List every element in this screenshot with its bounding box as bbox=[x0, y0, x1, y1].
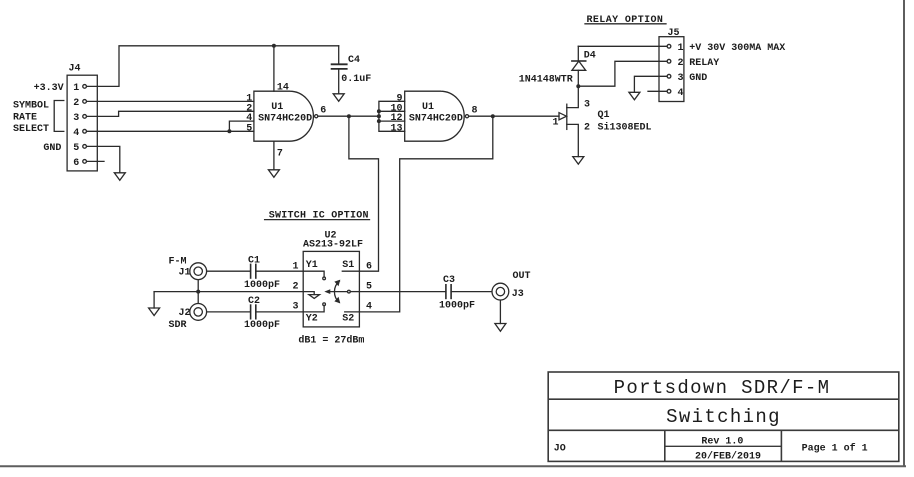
wire U1 pin14 drop bbox=[273, 46, 275, 91]
connector J5 bbox=[659, 37, 684, 102]
svg-text:Y1: Y1 bbox=[306, 260, 318, 271]
svg-text:SELECT: SELECT bbox=[13, 124, 49, 135]
wire J1 to C1 bbox=[207, 270, 250, 272]
svg-text:2: 2 bbox=[73, 98, 79, 109]
ground below J3 bbox=[495, 324, 506, 332]
U2 pin5 wire to box edge bbox=[351, 291, 360, 293]
junction at D4 anode / Q1 drain bbox=[576, 84, 580, 88]
svg-text:C3: C3 bbox=[443, 275, 455, 286]
svg-text:8: 8 bbox=[472, 105, 478, 116]
svg-text:C1: C1 bbox=[248, 256, 260, 267]
svg-text:SN74HC20D: SN74HC20D bbox=[409, 114, 463, 125]
svg-text:U1: U1 bbox=[271, 102, 283, 113]
title block frame bbox=[548, 372, 899, 461]
svg-text:3: 3 bbox=[678, 73, 684, 84]
svg-text:4: 4 bbox=[73, 128, 79, 139]
wire C2 to U2 pin3 bbox=[256, 311, 303, 313]
wire shield J1 to J2 bbox=[197, 280, 199, 303]
svg-text:SN74HC20D: SN74HC20D bbox=[258, 114, 312, 125]
wire J4 pin2 to U1 pin1 bbox=[87, 100, 254, 102]
U1a pin 7 wire to ground bbox=[273, 141, 275, 170]
wire J4 pin4 to U1 pin5 bbox=[87, 130, 254, 132]
svg-text:7: 7 bbox=[277, 149, 283, 160]
wire +3.3V rail from J4 pin1 to top bbox=[87, 46, 339, 87]
svg-text:SYMBOL: SYMBOL bbox=[13, 101, 49, 112]
svg-text:J4: J4 bbox=[69, 64, 81, 75]
svg-text:S2: S2 bbox=[342, 314, 354, 325]
svg-text:4: 4 bbox=[366, 301, 372, 312]
U2 outside pin numbers bbox=[293, 261, 373, 312]
svg-text:Page 1 of 1: Page 1 of 1 bbox=[802, 443, 868, 455]
wire U1b output to U2 S2 bbox=[359, 116, 492, 312]
wire U2 pin5 to C3 bbox=[359, 291, 446, 293]
wire J5 pin3 to ground bbox=[634, 76, 666, 92]
svg-text:2: 2 bbox=[584, 123, 590, 134]
wire junction to J5 pin2 RELAY bbox=[578, 61, 666, 86]
svg-text:OUT: OUT bbox=[513, 271, 531, 282]
transistor Q1 Si1308EDL bbox=[559, 86, 578, 156]
U2 internal common with small triangle bbox=[303, 292, 314, 295]
svg-text:F-M: F-M bbox=[169, 257, 187, 268]
wire U1a output to U2 S1 bbox=[349, 116, 379, 271]
svg-text:6: 6 bbox=[366, 261, 372, 272]
wire U1b output to Q1 gate bbox=[469, 115, 559, 117]
svg-text:SDR: SDR bbox=[169, 320, 187, 331]
connector J1 F-M input bbox=[190, 263, 207, 280]
svg-text:GND: GND bbox=[689, 73, 707, 84]
svg-text:3: 3 bbox=[73, 113, 79, 124]
junctions on U1b input bar bbox=[377, 109, 381, 123]
wire U1a output to U1b inputs bbox=[318, 115, 379, 117]
svg-text:6: 6 bbox=[320, 105, 326, 116]
svg-text:C4: C4 bbox=[348, 55, 360, 66]
U2 internal wiper arrow bbox=[329, 291, 347, 293]
svg-text:dB1 = 27dBm: dB1 = 27dBm bbox=[298, 335, 364, 347]
U2 internal S2 stub bbox=[345, 311, 360, 313]
svg-text:2: 2 bbox=[678, 58, 684, 69]
J3 labels bbox=[512, 271, 531, 300]
svg-text:J1: J1 bbox=[179, 268, 191, 279]
svg-text:Y2: Y2 bbox=[306, 314, 318, 325]
wire ground rail to U2 pin2 bbox=[154, 291, 303, 293]
wire C3 to J3 bbox=[451, 291, 492, 293]
ground below Q1 source bbox=[573, 157, 584, 165]
svg-text:C2: C2 bbox=[248, 296, 260, 307]
connector J2 SDR input bbox=[190, 304, 207, 321]
svg-text:+V 30V 300MA MAX: +V 30V 300MA MAX bbox=[689, 43, 785, 54]
U1b labels bbox=[409, 102, 463, 125]
svg-text:5: 5 bbox=[246, 123, 252, 134]
net label SYMBOL RATE SELECT bbox=[13, 101, 49, 135]
wire J2 to C2 bbox=[207, 311, 250, 313]
svg-text:GND: GND bbox=[43, 143, 61, 154]
svg-text:14: 14 bbox=[277, 83, 289, 94]
svg-text:+3.3V: +3.3V bbox=[34, 83, 64, 94]
svg-text:AS213-92LF: AS213-92LF bbox=[303, 240, 363, 251]
svg-text:1000pF: 1000pF bbox=[244, 280, 280, 291]
junction on Q1 gate wire bbox=[491, 114, 495, 118]
ground below J4 pin5 bbox=[114, 173, 125, 181]
svg-text:RELAY: RELAY bbox=[689, 58, 719, 69]
svg-text:Portsdown SDR/F-M: Portsdown SDR/F-M bbox=[614, 377, 831, 399]
capacitor C2 bbox=[251, 305, 256, 319]
op-amp U1 gate A (NAND SN74HC20D) bbox=[254, 91, 318, 141]
wire J5 pin4 stub bbox=[648, 90, 667, 92]
U2 internal pin5 contact circle bbox=[348, 290, 351, 293]
svg-text:Si1308EDL: Si1308EDL bbox=[598, 122, 652, 134]
wire J4 pin5 to ground bbox=[87, 146, 120, 172]
svg-text:D4: D4 bbox=[584, 51, 596, 62]
svg-text:20/FEB/2019: 20/FEB/2019 bbox=[695, 450, 761, 462]
wire J4 pin3 to U1 pin2 bbox=[87, 111, 254, 116]
wire branch to U1 pin4 bbox=[229, 121, 254, 131]
switch IC U2 body bbox=[303, 251, 359, 327]
U2 internal S1 stub bbox=[342, 270, 359, 272]
svg-text:1000pF: 1000pF bbox=[439, 301, 475, 312]
svg-text:4: 4 bbox=[678, 88, 684, 99]
junction at U1 pin14 drop bbox=[272, 44, 276, 48]
wire D4 cathode to J5 pin1 bbox=[578, 45, 666, 47]
capacitor C4 bbox=[332, 46, 347, 94]
wire to left ground bbox=[153, 292, 155, 308]
connector J3 OUT bbox=[492, 283, 509, 300]
U1a input pin numbers bbox=[246, 93, 252, 134]
svg-text:Rev 1.0: Rev 1.0 bbox=[701, 437, 743, 448]
J1 labels bbox=[169, 257, 191, 279]
svg-text:Q1: Q1 bbox=[598, 110, 610, 121]
ground at left of switch section bbox=[149, 308, 160, 316]
C3 labels bbox=[439, 275, 475, 312]
svg-text:J5: J5 bbox=[668, 28, 680, 39]
svg-text:6: 6 bbox=[73, 158, 79, 169]
junction on output wire bbox=[347, 114, 351, 118]
C1 labels bbox=[244, 256, 280, 292]
ground below U1a bbox=[268, 170, 279, 178]
wire C1 to U2 pin1 bbox=[256, 270, 303, 272]
capacitor C3 bbox=[446, 285, 451, 299]
op-amp U1 gate B (NAND SN74HC20D) bbox=[405, 91, 469, 141]
J2 labels bbox=[169, 308, 191, 331]
junction on shield wire bbox=[196, 290, 200, 294]
junction on pin5 wire bbox=[227, 129, 231, 133]
wire J3 shield to ground bbox=[499, 301, 501, 324]
svg-text:U1: U1 bbox=[422, 102, 434, 113]
J5 pin numbers 1-4 bbox=[678, 43, 684, 99]
svg-text:J3: J3 bbox=[512, 289, 524, 300]
svg-text:J2: J2 bbox=[179, 308, 191, 319]
svg-text:5: 5 bbox=[366, 281, 372, 292]
J4 pin numbers 1-6 bbox=[73, 83, 79, 169]
ground below J5 pin3 bbox=[629, 92, 640, 100]
connector J4 bbox=[67, 75, 97, 171]
svg-text:3: 3 bbox=[293, 301, 299, 312]
svg-text:13: 13 bbox=[391, 123, 403, 134]
svg-text:Switching: Switching bbox=[666, 406, 781, 428]
svg-text:1: 1 bbox=[678, 43, 684, 54]
svg-text:1: 1 bbox=[73, 83, 79, 94]
svg-text:S1: S1 bbox=[342, 260, 354, 271]
svg-text:JO: JO bbox=[554, 444, 566, 455]
diode D4 1N4148WTR bbox=[572, 46, 586, 86]
bracket for SYMBOL RATE SELECT bbox=[54, 101, 64, 132]
U2 internal Y2 contact bbox=[303, 306, 324, 312]
U1a labels bbox=[258, 102, 312, 125]
svg-text:0.1uF: 0.1uF bbox=[341, 74, 371, 85]
wire J4 pin6 stub bbox=[87, 160, 104, 162]
svg-text:2: 2 bbox=[293, 281, 299, 292]
ground below C4 bbox=[333, 94, 344, 102]
Q1 reference and value bbox=[598, 110, 652, 134]
svg-text:1: 1 bbox=[553, 118, 559, 129]
Q1 pin labels bbox=[553, 100, 591, 134]
U2 wiper travel arc bbox=[334, 281, 339, 302]
U1b input pin numbers bbox=[391, 93, 403, 134]
U1b input bar and stubs bbox=[379, 101, 405, 131]
U2 internal Y1 contact bbox=[303, 271, 324, 276]
C2 labels bbox=[244, 296, 280, 331]
capacitor C1 bbox=[251, 264, 256, 278]
svg-text:RATE: RATE bbox=[13, 112, 37, 123]
U2 internal labels bbox=[306, 260, 355, 324]
svg-text:5: 5 bbox=[73, 143, 79, 154]
svg-text:1000pF: 1000pF bbox=[244, 320, 280, 331]
svg-text:1N4148WTR: 1N4148WTR bbox=[519, 75, 573, 86]
svg-text:3: 3 bbox=[584, 100, 590, 111]
